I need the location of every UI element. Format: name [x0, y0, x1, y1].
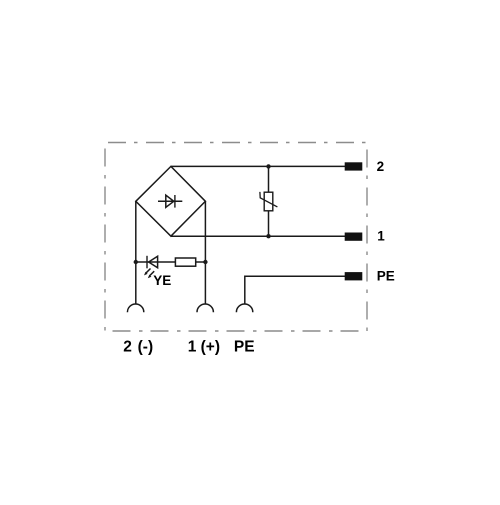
wire: top net (bridge top vertex to pin 2)	[171, 165, 345, 167]
svg-text:2 (-): 2 (-)	[123, 338, 153, 355]
svg-text:2: 2	[377, 159, 385, 174]
junction: top wire / varistor	[266, 164, 270, 168]
LED (yellow) diode symbol	[147, 256, 158, 268]
connector housing outline (dash-dot)	[105, 143, 367, 332]
svg-text:1 (+): 1 (+)	[188, 338, 220, 355]
svg-text:PE: PE	[377, 269, 395, 284]
pin 1 (black contact bar)	[345, 233, 363, 241]
junction: left vertical / LED branch	[134, 260, 138, 264]
junction: bottom wire / varistor	[266, 234, 270, 238]
wire: right vertical (bridge right vertex to terminal 1)	[204, 201, 206, 303]
svg-text:PE: PE	[234, 338, 255, 355]
terminal contact 1(+) arc	[197, 304, 213, 312]
pin 2 (black contact bar)	[345, 162, 363, 170]
pin PE (black contact bar)	[345, 272, 363, 280]
bridge rectifier internal diode	[158, 195, 182, 208]
bridge rectifier diamond	[136, 166, 206, 236]
LED emission arrow 1	[144, 269, 151, 276]
varistor diagonal stroke	[260, 192, 278, 207]
LED emission arrow 2	[148, 271, 154, 278]
wire: PE vertical drop to terminal PE	[244, 276, 246, 304]
wire: varistor bottom lead	[268, 210, 270, 236]
wire: varistor top lead	[268, 166, 270, 193]
terminal contact PE arc	[236, 304, 252, 312]
varistor body	[264, 192, 273, 211]
resistor body	[175, 258, 195, 266]
wire: bottom net (bridge bottom vertex to pin 1)	[171, 235, 345, 237]
terminal contact 2(-) arc	[127, 304, 143, 312]
svg-text:1: 1	[377, 228, 385, 243]
svg-text:YE: YE	[153, 273, 171, 288]
wire: PE horizontal	[245, 275, 345, 277]
wire: LED/resistor branch	[136, 261, 206, 263]
junction: right vertical / resistor branch	[203, 260, 207, 264]
wire: left vertical (bridge left vertex to terminal 2)	[135, 201, 137, 303]
